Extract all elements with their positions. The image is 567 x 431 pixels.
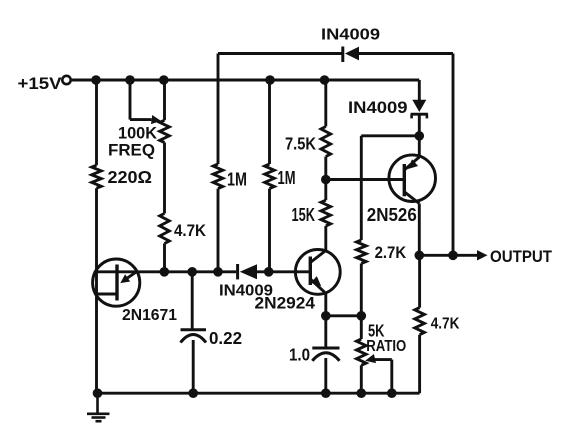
svg-text:OUTPUT: OUTPUT <box>490 248 552 266</box>
svg-text:2N526: 2N526 <box>367 205 417 225</box>
svg-text:4.7K: 4.7K <box>431 316 460 333</box>
svg-text:+15V: +15V <box>18 74 63 93</box>
svg-text:2.7K: 2.7K <box>375 243 407 262</box>
svg-text:7.5K: 7.5K <box>285 134 316 154</box>
svg-text:220Ω: 220Ω <box>108 167 153 187</box>
svg-text:0.22: 0.22 <box>209 328 242 348</box>
svg-text:FREQ: FREQ <box>108 141 155 160</box>
svg-text:RATIO: RATIO <box>366 338 406 355</box>
svg-text:1M: 1M <box>227 170 247 190</box>
svg-text:IN4009: IN4009 <box>321 27 380 44</box>
svg-text:1.0: 1.0 <box>289 345 310 365</box>
svg-text:2N2924: 2N2924 <box>255 295 316 313</box>
svg-text:2N1671: 2N1671 <box>122 307 177 324</box>
svg-text:15K: 15K <box>292 205 316 225</box>
svg-text:IN4009: IN4009 <box>348 99 408 117</box>
svg-text:4.7K: 4.7K <box>174 221 207 240</box>
svg-text:1M: 1M <box>278 168 296 188</box>
